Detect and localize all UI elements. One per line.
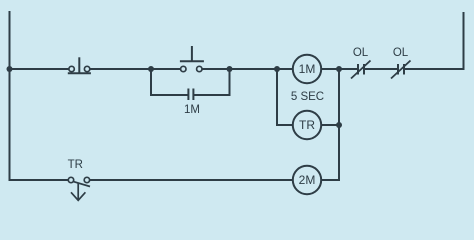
node junction dot (TR branch) <box>274 66 280 72</box>
node junction dot (bus middle) <box>336 122 342 128</box>
coil TR <box>293 111 321 139</box>
overload contact OL2 <box>391 61 411 79</box>
svg-text:OL: OL <box>393 47 409 59</box>
coil 2M <box>293 166 321 194</box>
node junction dot (branch right) <box>227 66 233 72</box>
svg-text:5 SEC: 5 SEC <box>291 91 324 103</box>
wire coil-to-OL segment <box>321 68 358 70</box>
wire bottom rung right segment <box>90 179 293 181</box>
overload contact OL1 <box>351 61 371 79</box>
node junction dot (branch left) <box>148 66 154 72</box>
wire start-to-coil segment <box>202 68 293 70</box>
wire between OL contacts <box>364 68 398 70</box>
contact TR timed (NOTC) <box>68 177 90 200</box>
node junction dot (left rail / rung 1) <box>7 66 13 72</box>
node junction dot (bus top) <box>336 66 342 72</box>
contact 1M holding (NO) <box>188 89 193 101</box>
wire stop-to-junction segment <box>90 68 181 70</box>
wire bottom rung left segment <box>10 179 69 181</box>
svg-text:1M: 1M <box>299 62 316 76</box>
wire main rung left segment <box>10 68 69 70</box>
right rail L2 <box>404 12 464 69</box>
coil 1M <box>293 55 321 83</box>
wire coil branch left (to TR coil) <box>277 69 293 125</box>
wire parallel branch <box>151 69 230 95</box>
pushbutton stop PB1 (NC) <box>68 57 91 73</box>
left rail L1 <box>10 11 13 180</box>
svg-text:OL: OL <box>353 47 369 59</box>
svg-text:2M: 2M <box>299 173 316 187</box>
wire TR coil to bus <box>321 124 339 126</box>
svg-text:TR: TR <box>68 159 83 171</box>
pushbutton start PB2 (NO) <box>180 46 204 72</box>
svg-text:1M: 1M <box>184 104 200 116</box>
wire right vertical bus <box>321 69 339 180</box>
svg-text:TR: TR <box>299 118 315 132</box>
